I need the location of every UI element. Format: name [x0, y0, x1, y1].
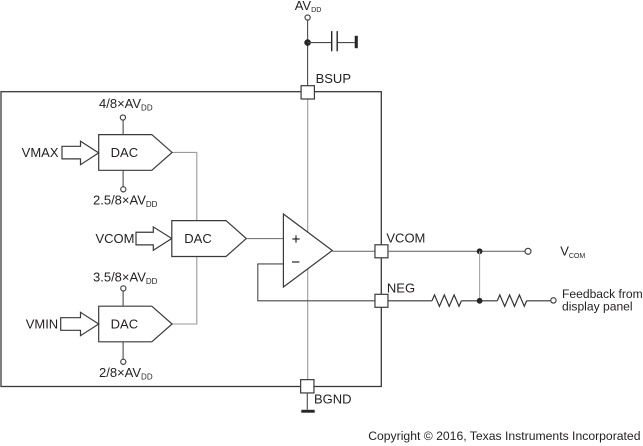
- junction NEG/divider: [477, 298, 483, 304]
- wire BSUP to BGND vertical rail: [307, 99, 309, 380]
- DAC U1 (VMAX DAC): [99, 135, 172, 171]
- svg-text:DAC: DAC: [111, 145, 138, 160]
- wire AVDD down to BSUP pad: [307, 20, 309, 86]
- wire BGND pad to ground: [306, 393, 308, 410]
- terminal 3.5/8xAVDD: [121, 286, 126, 291]
- wire capacitor to ground bar: [338, 42, 355, 44]
- svg-text:DAC: DAC: [111, 317, 138, 332]
- pin VCOM pad: [375, 245, 388, 258]
- junction AVDD/cap: [304, 39, 311, 46]
- pin NEG pad: [375, 294, 388, 307]
- svg-text:Copyright © 2016, Texas Instru: Copyright © 2016, Texas Instruments Inco…: [368, 429, 640, 443]
- op-amp U4: [283, 214, 332, 287]
- input arrow VMAX: [62, 141, 99, 165]
- input arrow VCOM: [136, 227, 172, 250]
- ground bar at capacitor: [355, 36, 358, 48]
- wire R1 to R2: [461, 300, 497, 302]
- terminal 4/8xAVDD: [120, 115, 125, 120]
- wire R2 to feedback terminal: [527, 300, 551, 302]
- terminal VCOM output: [525, 248, 531, 254]
- resistor R1: [432, 295, 461, 306]
- wire op-amp inverting feedback loop to NEG pad: [258, 264, 375, 301]
- DAC U3 (VMIN DAC): [99, 306, 172, 342]
- pin BGND pad: [301, 380, 314, 393]
- input arrow VMIN: [61, 312, 99, 335]
- wire 3.5/8 terminal to DAC3: [122, 291, 124, 306]
- svg-text:display panel: display panel: [562, 299, 633, 313]
- pin BSUP pad: [301, 86, 314, 99]
- DAC U2 (VCOM DAC): [172, 221, 247, 257]
- wire DAC2 output to op-amp: [246, 238, 283, 240]
- ground bar BGND: [301, 410, 314, 413]
- terminal 2/8xAVDD: [121, 359, 126, 364]
- svg-text:VCOM: VCOM: [386, 231, 425, 246]
- IC block outline: [1, 92, 381, 387]
- wire 4/8 terminal to DAC1: [122, 120, 124, 134]
- wire DAC1-output to DAC3-output vertical connector: [172, 152, 197, 324]
- terminal feedback: [551, 298, 556, 303]
- wire NEG pad to resistor R1: [388, 300, 432, 302]
- wire DAC3 to 2/8 terminal: [122, 342, 124, 359]
- svg-text:VCOM: VCOM: [96, 231, 135, 246]
- wire VCOM pad to VCOM terminal: [388, 250, 525, 252]
- terminal 2.5/8xAVDD: [121, 187, 126, 192]
- wire junction VCOM down to NEG junction: [479, 251, 481, 300]
- op-amp plus marking: [292, 238, 299, 240]
- svg-text:VMAX: VMAX: [22, 145, 59, 160]
- svg-text:NEG: NEG: [387, 280, 415, 295]
- op-amp minus marking: [292, 261, 299, 263]
- wire op-amp output to VCOM pad: [332, 250, 375, 252]
- capacitor C1 plates: [331, 31, 333, 51]
- wire DAC1 to 2.5/8 terminal: [122, 170, 124, 186]
- resistor R2: [497, 295, 526, 306]
- wire junction to capacitor: [308, 42, 332, 44]
- svg-text:VMIN: VMIN: [26, 317, 59, 332]
- svg-text:BSUP: BSUP: [316, 71, 351, 86]
- svg-text:DAC: DAC: [184, 231, 211, 246]
- svg-text:BGND: BGND: [314, 391, 352, 406]
- junction VCOM/divider: [477, 248, 483, 254]
- terminal AVDD: [305, 15, 310, 20]
